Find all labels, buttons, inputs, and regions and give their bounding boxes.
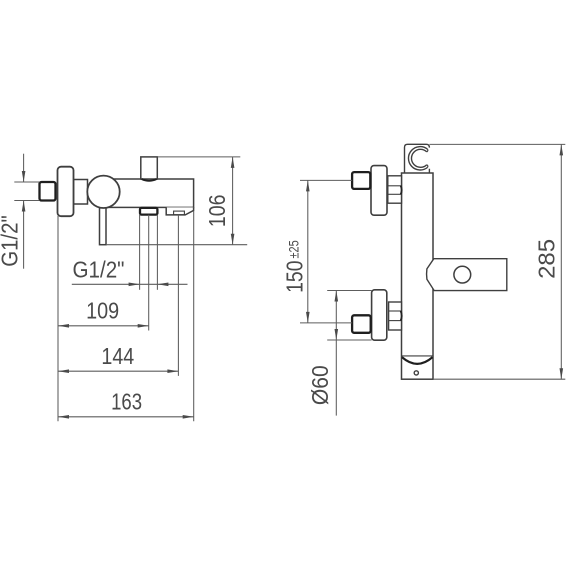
svg-text:G1/2": G1/2"	[0, 215, 23, 267]
spout aerator	[174, 211, 185, 215]
lever handle	[100, 195, 107, 245]
holder cup arc (thick)	[402, 357, 433, 364]
dim 285 ext top	[429, 143, 565, 145]
svg-text:106: 106	[204, 195, 230, 228]
svg-text:285: 285	[533, 239, 559, 279]
holder cup joint line	[402, 355, 434, 357]
top connector base arc	[142, 179, 157, 181]
106 top ext line	[157, 156, 240, 158]
dim 144	[58, 370, 178, 372]
svg-text:G1/2": G1/2"	[73, 257, 125, 283]
dim 163	[58, 416, 194, 418]
dim 150±25 ext bottom	[300, 322, 352, 324]
dim Ø60 ext top	[327, 290, 371, 292]
bottom union nut edge bulge	[401, 311, 402, 321]
top shower outlet connector	[141, 157, 158, 179]
hook square	[405, 144, 430, 173]
dim 109	[58, 325, 149, 327]
top union nut	[388, 176, 402, 203]
106 bottom ext line (lever bottom)	[106, 244, 247, 246]
svg-text:144: 144	[101, 343, 134, 369]
svg-text:109: 109	[86, 297, 119, 323]
ext lines of thread square	[14, 181, 39, 183]
hook C ring	[408, 147, 427, 170]
106 dim line	[232, 157, 234, 245]
handshower outlet right ext	[156, 215, 158, 290]
body end ext	[193, 211, 195, 421]
dim G1/2 horizontal	[72, 283, 188, 285]
dim 285 line	[560, 144, 562, 379]
dim 150±25 line	[307, 180, 309, 323]
diverter circle	[454, 266, 471, 283]
bottom union escutcheon	[372, 290, 387, 340]
dim 285 ext bottom	[433, 378, 565, 380]
wall face ext	[57, 216, 59, 421]
svg-text:163: 163	[111, 389, 142, 415]
top union escutcheon	[371, 166, 387, 216]
handshower outlet nipple (thick)	[140, 208, 157, 215]
svg-text:Ø60: Ø60	[307, 365, 333, 405]
holder screw hole	[414, 371, 418, 375]
handle knob circle	[87, 176, 119, 208]
top union nut edge bulge	[401, 186, 402, 195]
union connector behind handle	[74, 180, 88, 205]
diverter bar	[427, 259, 507, 291]
spout	[166, 207, 193, 215]
body tube	[100, 179, 194, 207]
handshower outlet center ext	[148, 215, 150, 331]
spout aerator ext	[177, 215, 179, 376]
wall escutcheon (left view)	[58, 167, 74, 217]
vertical dim G1/2 line	[23, 154, 25, 182]
column body	[402, 173, 434, 379]
G1/2 thread square (left view, thick)	[40, 182, 56, 201]
bottom union nut	[389, 302, 402, 330]
dim 150±25 ext top	[300, 179, 352, 181]
dim Ø60 ext bottom	[327, 339, 371, 341]
dim Ø60 line	[335, 291, 337, 416]
bottom union thread square (thick)	[352, 315, 371, 333]
handshower outlet left ext	[139, 215, 141, 290]
top union thread square (thick)	[352, 172, 370, 189]
